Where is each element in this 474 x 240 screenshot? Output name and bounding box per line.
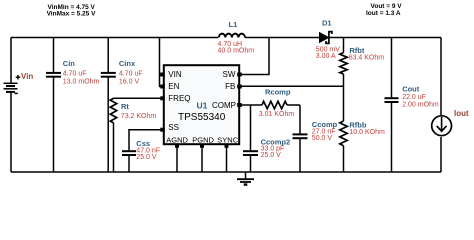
svg-text:3.01 KOhm: 3.01 KOhm	[259, 111, 295, 118]
Ccomp plates	[293, 133, 308, 135]
wire SW net	[239, 38, 269, 75]
IC body	[164, 65, 239, 144]
Iout circle	[432, 116, 452, 136]
annotation Vout/Iout	[366, 3, 402, 17]
svg-text:Cin: Cin	[63, 59, 76, 68]
svg-text:AGND: AGND	[166, 135, 188, 144]
Cout plates	[385, 97, 399, 99]
wire FB node to Rfbb	[343, 86, 345, 121]
ground stub	[245, 172, 247, 179]
svg-text:25.0 V: 25.0 V	[261, 152, 282, 159]
svg-text:PGND: PGND	[192, 135, 214, 144]
wire Rcomp to Ccomp	[287, 104, 300, 106]
svg-text:FREQ: FREQ	[168, 94, 190, 103]
diode D1 (schottky)	[316, 19, 340, 61]
pin pad SS	[160, 128, 165, 132]
wire SS to Css	[129, 130, 164, 151]
Cinx plates	[101, 72, 116, 74]
svg-text:4.70 uF: 4.70 uF	[63, 71, 87, 78]
wire FB net	[239, 85, 343, 87]
resistor Rcomp	[259, 87, 300, 118]
svg-text:L1: L1	[229, 20, 238, 29]
annotation VinMin/VinMax	[47, 4, 97, 17]
pin pad EN	[160, 85, 165, 89]
current source Iout	[432, 109, 469, 135]
wire VIN/EN feed	[160, 38, 164, 87]
svg-text:EN: EN	[168, 82, 179, 91]
minus sign	[15, 92, 18, 94]
capacitor Ccomp2	[243, 105, 290, 172]
Rt zigzag	[110, 98, 116, 123]
svg-text:Vin: Vin	[21, 72, 33, 81]
capacitor Css	[122, 130, 164, 172]
svg-text:Vout = 9 V: Vout = 9 V	[371, 3, 403, 10]
wire Ccomp2 top	[250, 105, 252, 150]
Css plates	[122, 150, 136, 152]
battery plates	[4, 82, 18, 84]
IC U1 TPS55340	[160, 65, 241, 148]
Cin plates	[46, 72, 61, 74]
svg-text:2.00 mOhm: 2.00 mOhm	[402, 102, 439, 109]
wire SYNC pin stub	[226, 144, 228, 172]
wire top rail right of L1	[245, 37, 441, 39]
pin pad COMP	[237, 103, 242, 107]
wire top rail	[11, 37, 218, 39]
svg-text:FB: FB	[225, 82, 235, 91]
svg-text:D1: D1	[322, 19, 332, 28]
inductor L1	[218, 20, 255, 55]
resistor Rfbb	[340, 86, 385, 172]
D1 anode triangle	[320, 33, 329, 43]
wire Cout bottom	[391, 103, 393, 172]
capacitor Cinx	[101, 38, 143, 173]
wire FREQ to Rt	[114, 97, 164, 99]
wire Rfbt top	[343, 38, 345, 53]
wire Rt bottom	[113, 123, 115, 172]
svg-text:50.0 V: 50.0 V	[312, 135, 333, 142]
svg-text:Rcomp: Rcomp	[265, 87, 291, 96]
wire Ccomp top	[299, 105, 301, 134]
Ccomp2 plates	[243, 150, 258, 152]
svg-text:VinMax = 5.25 V: VinMax = 5.25 V	[47, 10, 97, 17]
pin pad FREQ	[160, 96, 165, 100]
ground	[237, 172, 254, 185]
svg-text:SYNC: SYNC	[217, 135, 238, 144]
pin pad VIN	[160, 73, 165, 77]
svg-text:SS: SS	[168, 123, 179, 132]
svg-text:SW: SW	[223, 70, 236, 79]
wire Ccomp2 bottom	[250, 156, 252, 172]
wire Ccomp bottom	[299, 139, 301, 172]
svg-text:73.2 KOhm: 73.2 KOhm	[121, 113, 157, 120]
wire Cin bottom	[53, 78, 55, 173]
wire right edge lower	[440, 137, 442, 172]
Rcomp zigzag	[262, 101, 287, 108]
pin pad AGND	[175, 144, 179, 148]
wire Cinx bottom	[107, 78, 109, 173]
svg-text:22.0 uF: 22.0 uF	[402, 94, 426, 101]
capacitor Cin	[46, 38, 100, 173]
pin pad SYNC	[225, 144, 229, 148]
plus sign	[16, 75, 21, 80]
wire Rfbb bottom	[343, 146, 345, 172]
Rfbb zigzag	[340, 121, 347, 146]
capacitor Cout	[385, 38, 439, 173]
wire VIN stub	[160, 74, 164, 76]
wire COMP net	[239, 104, 262, 106]
capacitor Ccomp	[293, 105, 338, 172]
pin pad SW	[237, 73, 242, 77]
svg-text:COMP: COMP	[212, 101, 236, 110]
svg-text:Rt: Rt	[121, 102, 129, 111]
wire right edge upper	[440, 38, 442, 116]
svg-text:3.00 A: 3.00 A	[316, 53, 336, 60]
wire Cin top	[53, 38, 55, 73]
wire Rfbt to FB node	[343, 74, 345, 86]
wire left edge lower (Vin-)	[10, 93, 12, 173]
svg-text:25.0 V: 25.0 V	[136, 154, 157, 161]
voltage source Vin	[4, 75, 21, 94]
svg-text:13.0 mOhm: 13.0 mOhm	[63, 78, 100, 85]
pin pad FB	[237, 85, 242, 89]
wire Cinx top	[107, 38, 109, 73]
wire bottom rail	[11, 171, 441, 173]
svg-text:Iout = 1.3 A: Iout = 1.3 A	[366, 10, 401, 17]
pin pad PGND	[200, 144, 204, 148]
svg-text:VIN: VIN	[168, 70, 182, 79]
svg-text:40.0 mOhm: 40.0 mOhm	[218, 48, 255, 55]
svg-text:Cout: Cout	[402, 85, 420, 94]
wire AGND pin stub	[176, 144, 178, 172]
L1 coil	[219, 34, 245, 38]
resistor Rt	[110, 98, 164, 172]
wire Cout top	[391, 38, 393, 98]
wire PGND pin stub	[201, 144, 203, 172]
svg-text:Cinx: Cinx	[119, 59, 136, 68]
svg-text:16.0 V: 16.0 V	[119, 78, 140, 85]
svg-text:U1: U1	[197, 101, 208, 111]
Rfbt zigzag	[340, 53, 347, 75]
svg-text:TPS55340: TPS55340	[178, 112, 226, 123]
svg-text:63.4 KOhm: 63.4 KOhm	[349, 54, 385, 61]
wire Css bottom	[128, 156, 130, 172]
svg-text:4.70 uF: 4.70 uF	[119, 71, 143, 78]
D1 schottky cathode bar	[326, 31, 332, 44]
resistor Rfbt	[340, 38, 384, 87]
svg-text:Iout: Iout	[454, 109, 469, 118]
svg-text:Rfbb: Rfbb	[349, 121, 366, 130]
Iout arrow	[441, 117, 443, 131]
ground bars	[237, 178, 254, 180]
wire left edge upper (Vin+)	[10, 38, 12, 84]
svg-text:10.0 KOhm: 10.0 KOhm	[349, 129, 385, 136]
